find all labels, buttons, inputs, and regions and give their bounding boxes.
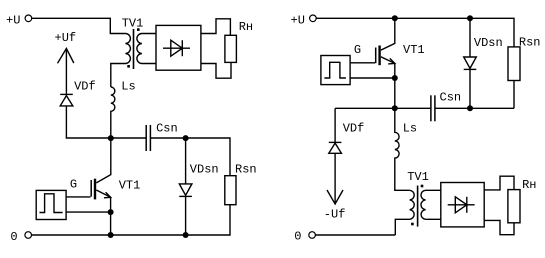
- svg-text:VDf: VDf: [74, 79, 96, 93]
- svg-text:TV1: TV1: [407, 170, 429, 184]
- svg-text:G: G: [354, 43, 361, 57]
- svg-text:VT1: VT1: [119, 178, 141, 192]
- svg-text:Csn: Csn: [440, 90, 462, 104]
- svg-text:Csn: Csn: [156, 122, 178, 136]
- svg-text:Rsn: Rsn: [235, 162, 257, 176]
- svg-text:-Uf: -Uf: [324, 208, 346, 222]
- svg-text:Rн: Rн: [239, 20, 253, 34]
- svg-text:VDsn: VDsn: [190, 162, 219, 176]
- svg-text:Ls: Ls: [121, 80, 135, 94]
- svg-text:+Uf: +Uf: [55, 31, 77, 45]
- svg-text:Rн: Rн: [522, 178, 536, 192]
- svg-text:VDf: VDf: [343, 121, 365, 135]
- svg-text:VDsn: VDsn: [474, 36, 503, 50]
- svg-text:+U: +U: [291, 13, 305, 27]
- svg-text:0: 0: [10, 230, 17, 244]
- svg-text:+U: +U: [6, 13, 20, 27]
- svg-text:TV1: TV1: [122, 16, 144, 30]
- svg-text:Ls: Ls: [403, 121, 417, 135]
- svg-text:Rsn: Rsn: [519, 36, 541, 50]
- svg-text:VT1: VT1: [403, 43, 425, 57]
- svg-text:0: 0: [294, 230, 301, 244]
- svg-text:G: G: [70, 178, 77, 192]
